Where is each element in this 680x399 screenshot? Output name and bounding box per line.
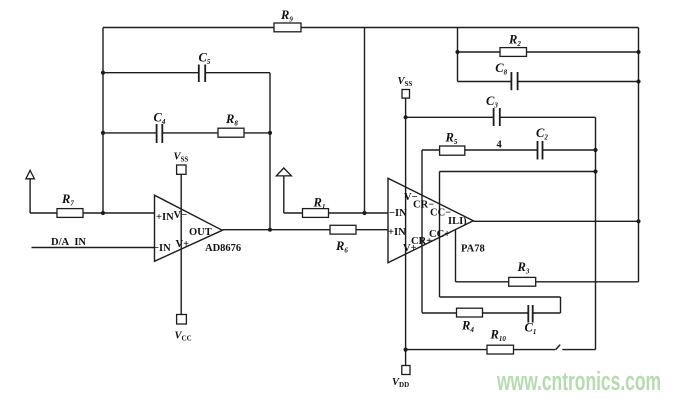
svg-text:AD8676: AD8676 bbox=[205, 243, 241, 254]
svg-text:4: 4 bbox=[497, 140, 503, 151]
svg-text:D/A IN: D/A IN bbox=[51, 237, 86, 248]
wire C4 R8 row right bbox=[162, 132, 270, 134]
resistor R6 bbox=[330, 225, 356, 234]
wire R2 row bbox=[458, 51, 639, 53]
svg-text:+IN: +IN bbox=[156, 212, 174, 223]
node R10 left bbox=[404, 348, 408, 352]
svg-text:VSS: VSS bbox=[398, 76, 413, 88]
wire C8 row right bbox=[518, 81, 639, 83]
wire R1 row to PA78 -IN bbox=[284, 212, 388, 214]
terminal VDD PA78 bbox=[402, 366, 410, 375]
node C3 left bbox=[404, 115, 408, 119]
wire C5 row right bbox=[205, 72, 270, 74]
wire R3 row bbox=[456, 281, 639, 283]
svg-text:V−: V− bbox=[174, 210, 188, 221]
wire left arrow stem bbox=[29, 179, 31, 213]
svg-text:R6: R6 bbox=[335, 239, 348, 255]
capacitor C8 bbox=[510, 72, 512, 90]
svg-text:C2: C2 bbox=[536, 126, 548, 142]
wire ILIM pin vertical to R3 bbox=[455, 230, 457, 282]
wire CC- row bbox=[440, 171, 596, 173]
wire C1 corner vertical bbox=[560, 297, 562, 313]
svg-text:VCC: VCC bbox=[175, 331, 192, 343]
wire C4 R8 row left bbox=[103, 132, 157, 134]
wire top feedback bus bbox=[103, 27, 639, 29]
wire C3 row right bbox=[500, 116, 596, 118]
wire CC+ row bbox=[440, 296, 561, 298]
wire R4 C1 row left bbox=[422, 312, 528, 314]
wire PA78 CR line R5 to R4 bbox=[421, 150, 423, 313]
terminal VSS PA78 bbox=[402, 90, 410, 99]
wire right mid vertical bbox=[595, 117, 597, 349]
wire R10 row right bbox=[562, 349, 595, 351]
svg-text:V+: V+ bbox=[176, 239, 190, 250]
node R2 right bbox=[636, 50, 640, 54]
arrow input mid bbox=[276, 168, 291, 176]
wire C1 right to corner bbox=[533, 312, 561, 314]
resistor R2 bbox=[500, 48, 527, 57]
node C2 right bbox=[593, 148, 597, 152]
wire mid vertical to OUT node bbox=[269, 73, 271, 230]
arrow input left bbox=[26, 170, 35, 179]
wire PA78 CC line bbox=[439, 172, 441, 298]
wire R5 C2 row left bbox=[422, 149, 538, 151]
svg-text:R7: R7 bbox=[61, 192, 74, 208]
wire D/A IN row bbox=[32, 247, 155, 249]
wire C3 row left bbox=[406, 116, 494, 118]
svg-text:OUT: OUT bbox=[189, 227, 212, 238]
capacitor C1 bbox=[527, 305, 529, 323]
wire R7 input row bbox=[30, 212, 154, 214]
svg-text:+IN: +IN bbox=[388, 227, 406, 238]
svg-text:R10: R10 bbox=[490, 328, 507, 344]
svg-text:C4: C4 bbox=[154, 111, 166, 127]
svg-text:VDD: VDD bbox=[392, 377, 409, 389]
svg-text:C8: C8 bbox=[495, 61, 507, 77]
terminal VSS AD8676 bbox=[177, 165, 186, 174]
op-amp U2 PA78 bbox=[388, 178, 473, 262]
capacitor C4 bbox=[156, 124, 158, 143]
wire R5 C2 row right bbox=[543, 149, 596, 151]
svg-text:V+: V+ bbox=[403, 243, 417, 254]
svg-text:www.cntronics.com: www.cntronics.com bbox=[496, 368, 661, 396]
node PA78 out bbox=[636, 219, 640, 223]
wire R10 row bbox=[406, 349, 556, 351]
wire PA78 output bbox=[473, 220, 638, 222]
wire left vertical node A bbox=[102, 28, 104, 214]
svg-text:C1: C1 bbox=[525, 321, 537, 337]
wire R10 row hop bbox=[556, 345, 561, 350]
resistor R5 bbox=[440, 146, 465, 155]
wire PA78 V- line VSS to VDD bbox=[405, 98, 407, 366]
resistor R7 bbox=[57, 209, 83, 218]
capacitor C3 bbox=[493, 108, 495, 126]
svg-text:R5: R5 bbox=[445, 131, 458, 147]
wire vertical top bus to R2 C8 bbox=[457, 28, 459, 82]
svg-text:−IN: −IN bbox=[153, 243, 171, 254]
svg-text:−IN: −IN bbox=[389, 208, 407, 219]
svg-text:R1: R1 bbox=[313, 196, 326, 212]
wire C5 row left bbox=[103, 72, 199, 74]
op-amp U1 AD8676 bbox=[155, 195, 223, 261]
resistor R3 bbox=[509, 277, 536, 286]
capacitor C2 bbox=[537, 141, 539, 160]
terminal VCC AD8676 bbox=[177, 315, 187, 325]
resistor R4 bbox=[457, 308, 483, 317]
resistor R1 bbox=[303, 209, 329, 218]
svg-text:PA78: PA78 bbox=[461, 244, 485, 255]
resistor R10 bbox=[487, 345, 514, 354]
wire vertical top bus to R1 node bbox=[364, 28, 366, 214]
node R7 junction bbox=[101, 211, 105, 215]
node C8 right bbox=[636, 79, 640, 83]
node A C5 left bbox=[101, 71, 105, 75]
svg-text:CC+: CC+ bbox=[429, 229, 450, 240]
svg-text:VSS: VSS bbox=[174, 152, 189, 164]
node R1 junction bbox=[362, 211, 366, 215]
svg-text:R4: R4 bbox=[461, 319, 474, 335]
wire AD8676 supply stem VSS to VCC bbox=[180, 174, 182, 315]
wire C8 row left bbox=[458, 81, 512, 83]
svg-text:R2: R2 bbox=[508, 33, 521, 49]
svg-text:R9: R9 bbox=[280, 8, 293, 24]
node OUT junction bbox=[268, 228, 272, 232]
svg-text:C3: C3 bbox=[486, 94, 498, 110]
capacitor C5 bbox=[198, 65, 200, 83]
svg-text:R8: R8 bbox=[225, 112, 238, 128]
resistor R8 bbox=[218, 128, 244, 137]
svg-text:C5: C5 bbox=[199, 51, 211, 67]
node C4 left bbox=[101, 131, 105, 135]
svg-text:ILI): ILI) bbox=[448, 216, 467, 227]
wire AD8676 OUT to PA78 +IN bbox=[222, 229, 388, 231]
node CC row right bbox=[593, 169, 597, 173]
resistor R9 bbox=[274, 23, 301, 32]
svg-text:R3: R3 bbox=[517, 260, 530, 276]
wire right vertical bus bbox=[638, 28, 640, 282]
node C4 right bbox=[268, 131, 272, 135]
node R2 left bbox=[455, 50, 459, 54]
wire mid arrow stem bbox=[283, 176, 285, 213]
